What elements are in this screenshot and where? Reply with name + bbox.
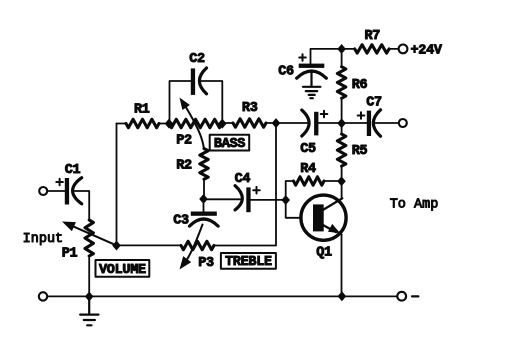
wire node H to C4	[204, 198, 241, 200]
wire collector to node E	[341, 181, 343, 199]
svg-text:C3: C3	[173, 214, 189, 229]
resistor R3	[233, 119, 266, 127]
wire node D to C7	[342, 122, 367, 124]
P1 wiper arrow	[62, 222, 117, 246]
wire C1 to P1 top	[75, 191, 90, 220]
TREBLE box label	[221, 253, 276, 270]
svg-text:R3: R3	[242, 101, 258, 116]
svg-text:P3: P3	[198, 256, 214, 271]
wire R3 to node C	[266, 122, 276, 124]
svg-text:R7: R7	[364, 29, 380, 44]
resistor R2	[200, 149, 208, 180]
wire node B to R3	[222, 122, 233, 124]
wire node D up to R6	[341, 98, 343, 123]
wire rail corner to R1	[117, 123, 127, 125]
wire node F to C6	[311, 49, 342, 64]
node F	[337, 44, 346, 54]
svg-text:R4: R4	[300, 162, 316, 177]
wire input to C1	[48, 190, 65, 192]
ground symbol bottom	[80, 296, 98, 325]
capacitor C1	[56, 178, 81, 205]
wire C2 loop left	[170, 81, 192, 123]
svg-text:Input: Input	[23, 232, 64, 247]
wire node C down to P3 right	[214, 123, 277, 246]
wire R1 to node A	[159, 123, 169, 125]
capacitor C6	[297, 54, 327, 78]
svg-text:C4: C4	[235, 172, 251, 187]
input terminal	[39, 187, 47, 195]
P3 wiper arrow	[180, 225, 203, 270]
node G	[281, 195, 290, 205]
wire R5 top to node D	[341, 123, 343, 134]
VOLUME box label	[96, 260, 150, 278]
svg-text:C1: C1	[65, 163, 81, 178]
svg-text:+24V: +24V	[411, 43, 443, 58]
svg-text:C7: C7	[366, 95, 382, 110]
node A	[165, 119, 174, 129]
svg-text:C6: C6	[278, 64, 294, 79]
BASS box label	[210, 135, 250, 152]
wire C4 to node G	[251, 199, 286, 201]
wire P1 bottom to ground rail	[88, 256, 90, 296]
node E	[337, 176, 346, 186]
ground at C6	[303, 73, 320, 98]
capacitor C2	[191, 68, 207, 95]
node D	[337, 118, 346, 128]
minus label	[412, 295, 418, 297]
wire left rail	[116, 124, 118, 246]
node I volume junction	[112, 241, 121, 251]
resistor R7	[355, 45, 389, 53]
wire R7 to +24V terminal	[389, 48, 398, 50]
svg-text:R2: R2	[176, 158, 192, 173]
wire C2 loop right	[201, 81, 222, 123]
wire volume node to P3	[117, 244, 182, 246]
svg-text:R6: R6	[352, 78, 368, 93]
svg-text:P2: P2	[176, 133, 192, 148]
wire R4 to node E	[324, 180, 342, 182]
node C	[272, 118, 281, 128]
bottom rail wire	[47, 295, 397, 297]
potentiometer P2	[169, 119, 222, 127]
svg-text:Q1: Q1	[316, 246, 332, 261]
capacitor C7	[358, 110, 381, 136]
wire node G down to Q1 base	[286, 200, 314, 218]
bottom left terminal	[39, 292, 47, 300]
resistor R5	[337, 134, 345, 166]
wire emitter down	[341, 235, 343, 297]
wire R6 top to node F	[341, 49, 343, 67]
capacitor C5	[302, 110, 328, 136]
wire node C to C5	[276, 122, 308, 124]
node K emitter junction	[338, 291, 347, 301]
capacitor C3	[190, 212, 219, 227]
wire node G up to R4	[286, 181, 294, 200]
svg-text:R1: R1	[134, 102, 150, 117]
svg-text:TREBLE: TREBLE	[225, 255, 272, 270]
svg-text:VOLUME: VOLUME	[99, 263, 146, 278]
svg-text:C2: C2	[189, 52, 205, 67]
wire R2 to node H	[203, 179, 205, 199]
wire C5 to node D	[318, 122, 341, 124]
wire node H to C3	[203, 199, 205, 212]
potentiometer P3	[181, 241, 214, 249]
bottom right terminal	[397, 292, 406, 301]
svg-text:To Amp: To Amp	[390, 198, 439, 213]
potentiometer P1	[85, 220, 93, 256]
resistor R1	[126, 119, 159, 127]
wire node E to R5	[341, 166, 343, 181]
svg-text:P1: P1	[62, 246, 78, 261]
node H	[199, 194, 208, 204]
node J ground junction	[85, 292, 94, 302]
node B	[218, 119, 227, 129]
+24V terminal	[399, 45, 408, 54]
svg-text:R5: R5	[352, 144, 368, 159]
svg-text:BASS: BASS	[214, 137, 245, 152]
resistor R6	[337, 67, 345, 99]
resistor R4	[294, 177, 325, 185]
wire node F to R7	[342, 48, 355, 50]
transistor Q1	[301, 195, 346, 240]
P2 wiper arrow	[180, 98, 205, 149]
capacitor C4	[235, 186, 260, 213]
svg-text:C5: C5	[300, 142, 316, 157]
wire C7 to output terminal	[376, 122, 399, 124]
output terminal mid	[399, 119, 407, 127]
